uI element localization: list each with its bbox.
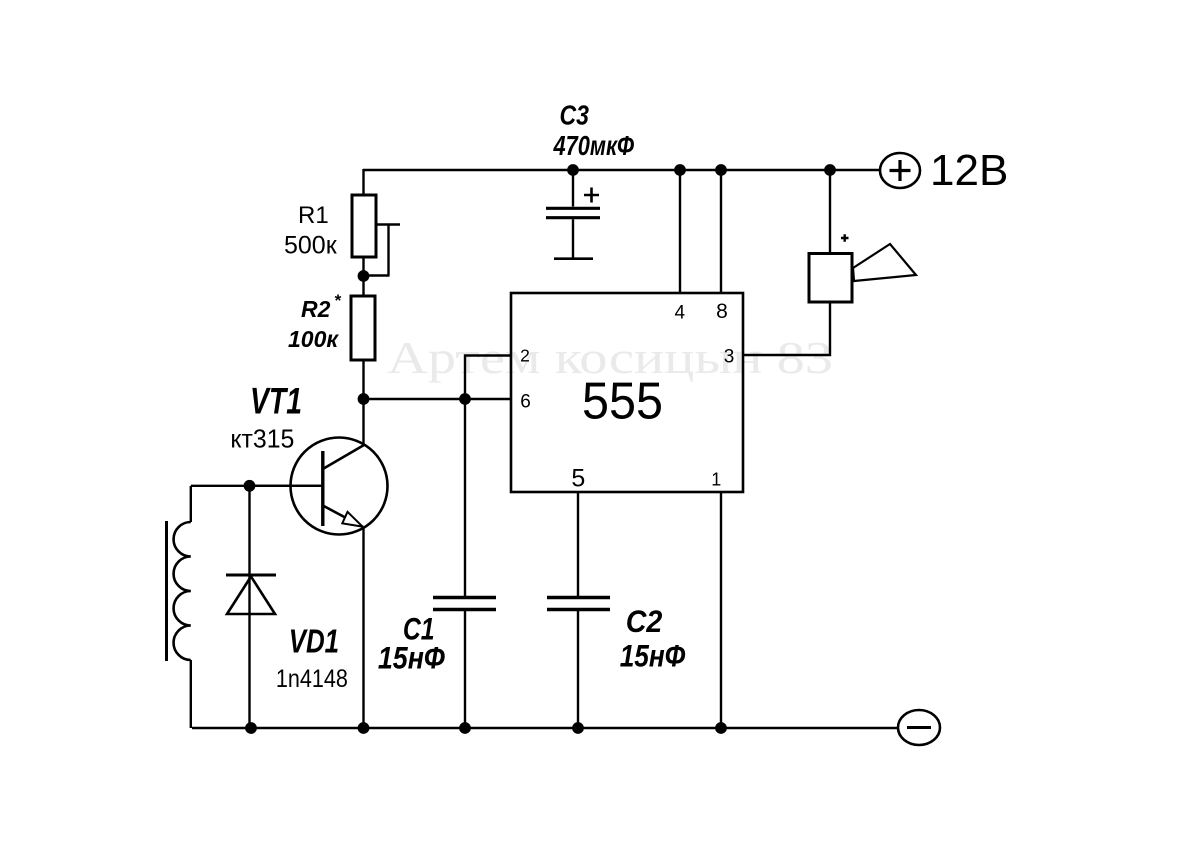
node pin2/C1 branch (459, 393, 471, 405)
wire pin 1 to rail (720, 492, 722, 728)
node pin1 rail (715, 722, 727, 734)
wire C1 top lead (464, 399, 466, 596)
wire C3 bottom lead (572, 219, 574, 258)
C3 polarity plus (584, 188, 599, 203)
wire C2 bottom lead (577, 611, 579, 728)
svg-text:8: 8 (716, 300, 728, 323)
svg-text:12В: 12В (930, 146, 1008, 195)
capacitor C3 (546, 208, 600, 217)
wire top rail (363, 169, 880, 171)
node diode top (244, 480, 256, 492)
wire speaker top lead (829, 170, 831, 254)
node pin4 rail (674, 164, 686, 176)
C3 end bar (554, 257, 593, 260)
wire pin 5 to C2 (577, 492, 579, 596)
node C2 rail (572, 722, 584, 734)
node R2/collector/pin6 (358, 393, 370, 405)
wire coil top corner (191, 486, 322, 522)
IC U1 555 box (511, 293, 743, 492)
svg-text:R2: R2 (301, 296, 331, 322)
wire speaker to pin 3 (743, 302, 831, 355)
node junction R1/R2 (358, 270, 370, 282)
transistor VT1 emitter stroke (323, 506, 363, 528)
svg-text:555: 555 (582, 373, 663, 431)
diode VD1 triangle (227, 577, 275, 615)
terminal minus sign (907, 726, 931, 729)
transistor VT1 emitter arrow (342, 512, 362, 527)
wire C1 bottom lead (464, 611, 466, 728)
speaker LS1 body (809, 254, 852, 303)
transformer core (165, 521, 168, 661)
svg-text:1n4148: 1n4148 (276, 665, 348, 693)
svg-text:500к: 500к (284, 232, 338, 260)
wire pin 2 branch (465, 356, 511, 400)
svg-text:VD1: VD1 (289, 624, 339, 661)
potentiometer wiper tap (363, 225, 400, 276)
svg-text:15нФ: 15нФ (620, 638, 686, 674)
wire collector up (362, 399, 364, 446)
terminal plus sign (890, 160, 911, 181)
node pin8 rail (715, 164, 727, 176)
svg-text:470мкФ: 470мкФ (553, 130, 634, 161)
capacitor C1 (433, 598, 496, 610)
svg-text:*: * (334, 291, 342, 310)
node coil bottom rail (245, 722, 257, 734)
svg-text:C2: C2 (626, 603, 663, 639)
resistor R2 (351, 296, 375, 360)
resistor R1 (352, 195, 376, 257)
node emitter rail (358, 722, 370, 734)
wire R1 to R2 (362, 257, 364, 296)
node C3 rail (567, 164, 579, 176)
wire coil bottom (190, 660, 192, 728)
svg-text:5: 5 (571, 464, 585, 492)
transistor VT1 base bar (321, 451, 324, 526)
speaker horn (853, 244, 916, 281)
wire C3 top lead (572, 170, 574, 207)
diode VD1 cathode bar (226, 574, 276, 577)
transistor VT1 circle (291, 438, 388, 535)
terminal minus circle (898, 710, 940, 745)
wire node to pin 6 (362, 398, 511, 400)
svg-text:C3: C3 (560, 100, 590, 131)
svg-text:VT1: VT1 (250, 380, 302, 422)
wire R2 bottom lead (362, 360, 364, 400)
node speaker rail (824, 164, 836, 176)
svg-text:6: 6 (520, 392, 531, 413)
svg-text:1: 1 (711, 470, 721, 490)
terminal +12V circle (880, 153, 920, 188)
svg-text:R1: R1 (298, 202, 329, 229)
svg-text:15нФ: 15нФ (378, 640, 445, 676)
capacitor C2 (547, 598, 610, 610)
speaker polarity plus (841, 234, 849, 242)
node C1 rail (459, 722, 471, 734)
wire pin 4 to rail (679, 170, 681, 293)
svg-text:2: 2 (520, 346, 530, 366)
wire base (250, 485, 322, 487)
transformer winding L1 (174, 522, 191, 660)
wire R1 top lead (362, 169, 364, 196)
svg-text:кт315: кт315 (230, 424, 294, 454)
wire pin 8 to rail (720, 170, 722, 293)
svg-text:100к: 100к (288, 326, 339, 352)
transistor VT1 collector stroke (323, 445, 364, 469)
svg-text:3: 3 (724, 346, 735, 367)
wire bottom rail (192, 727, 898, 729)
wire emitter down (362, 527, 364, 728)
diode VD1 vertical wire (248, 486, 250, 728)
svg-text:4: 4 (675, 303, 686, 324)
